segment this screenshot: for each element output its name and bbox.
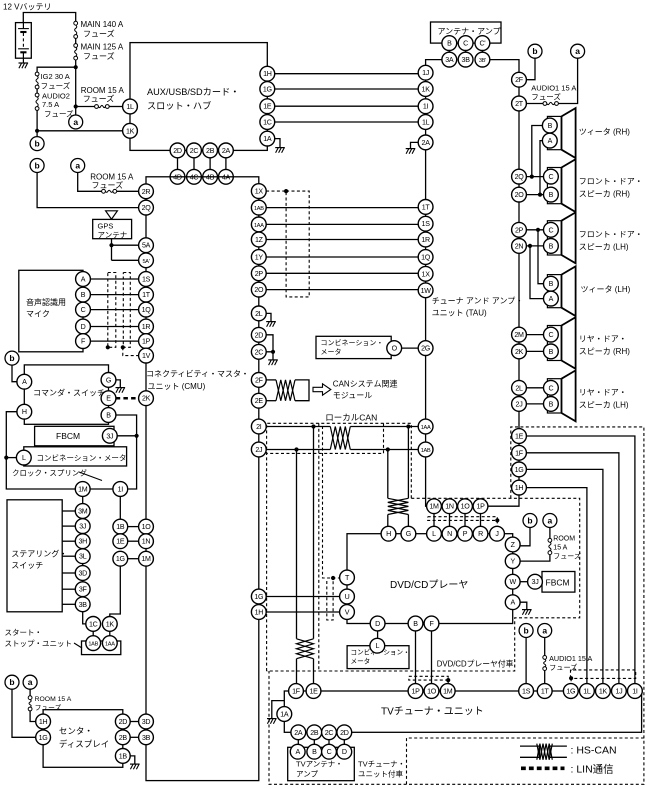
hub pin 2C — [187, 143, 202, 158]
svg-text:2N: 2N — [515, 242, 524, 250]
wire mic C — [90, 309, 139, 311]
svg-text:1AA: 1AA — [105, 642, 115, 648]
wire tv pin down 344.3 — [343, 740, 345, 745]
label clock spring — [12, 468, 87, 478]
CMU pin 1Z right — [251, 232, 266, 247]
wire clockspring chain 589.2 — [82, 595, 84, 598]
svg-text:2R: 2R — [142, 188, 151, 196]
svg-text:: HS-CAN: : HS-CAN — [571, 745, 617, 757]
svg-text:コンビネーション・: コンビネーション・ — [321, 338, 384, 347]
svg-text:3L: 3L — [79, 553, 87, 561]
svg-text:a: a — [575, 46, 580, 56]
wire 2D to 3D — [130, 721, 139, 723]
wire tv pin down 298.3 — [297, 740, 299, 745]
TV pin 1O — [424, 684, 439, 699]
svg-text:b: b — [34, 161, 39, 171]
wire down to TV coil right — [313, 427, 315, 639]
junction dot 2N — [528, 244, 532, 248]
DVD pin G — [401, 526, 416, 541]
svg-text:1B: 1B — [119, 752, 128, 760]
svg-text:1E: 1E — [309, 688, 318, 696]
svg-text:GPS: GPS — [98, 221, 114, 230]
wire AUDIO2 down to b — [36, 110, 38, 136]
front RH pin B — [544, 187, 559, 202]
wire b to 2Q — [37, 173, 139, 208]
wire hub 1E to TAU 1I — [275, 105, 419, 107]
ground CMU 2C — [268, 360, 278, 365]
svg-text:B: B — [106, 412, 111, 420]
svg-text:B: B — [548, 122, 553, 130]
svg-text:ツィータ (LH): ツィータ (LH) — [581, 285, 631, 294]
HS-CAN coil local CAN — [330, 427, 350, 450]
TAU pin 1AB left — [418, 442, 433, 457]
label AUX/USB/SD — [147, 87, 239, 97]
connector 4C — [187, 169, 202, 184]
svg-text:アンテナ: アンテナ — [98, 230, 128, 239]
commander pin A — [17, 374, 32, 389]
CMU pin 1N left — [139, 534, 154, 549]
svg-text:1K: 1K — [126, 127, 135, 135]
junction dot 1AB branch — [386, 447, 390, 451]
svg-text:ローカルCAN: ローカルCAN — [325, 413, 377, 423]
connector a room — [71, 159, 85, 173]
wire CMU 1AB — [266, 207, 418, 209]
label center line2 — [59, 739, 109, 749]
wire room fuse to 1L — [109, 106, 123, 108]
hub pin 2A — [219, 143, 234, 158]
svg-text:B: B — [413, 620, 418, 628]
svg-text:AUX/USB/SDカード・: AUX/USB/SDカード・ — [147, 87, 239, 97]
svg-text:1G: 1G — [566, 688, 575, 696]
antenna amp box — [431, 22, 502, 43]
svg-text:1L: 1L — [422, 119, 430, 127]
connector 4D — [170, 169, 185, 184]
wire hub 1G to TAU 1K — [275, 88, 419, 90]
startstop pin 1AA — [102, 636, 117, 651]
label center line1 — [59, 726, 93, 736]
svg-text:1M: 1M — [429, 503, 439, 511]
steering pin 3H — [75, 534, 90, 549]
wire 2I to coil — [266, 426, 330, 428]
meter pin L dvd — [370, 638, 385, 653]
wire down to a — [75, 107, 77, 115]
wire TAU 1G nest — [526, 469, 603, 684]
wire fuse to 1H disp — [30, 711, 36, 722]
svg-text:3J: 3J — [79, 523, 87, 531]
TAU pin 1G right — [512, 462, 527, 477]
wire W to 3J2 — [520, 581, 528, 583]
wire CMU 2C — [266, 352, 273, 360]
svg-text:1R: 1R — [142, 323, 151, 331]
label AUDIO2 fuse — [44, 109, 74, 119]
dashed shield mic twisted pair box 2 — [123, 273, 130, 348]
connector b audio — [528, 44, 542, 58]
wire clockspring chain 511 — [82, 517, 84, 520]
LIN wire E to 2K — [116, 397, 139, 400]
svg-text:FBCM: FBCM — [56, 431, 80, 441]
TAU pin 2G left — [418, 341, 433, 356]
hub pin 1L — [123, 99, 138, 114]
CMU pin 2P right — [251, 266, 266, 281]
label ROOM fuse disp — [35, 703, 62, 712]
label AUDIO1 tv — [549, 654, 592, 663]
svg-text:D: D — [81, 323, 86, 331]
dashed wire to connector T — [323, 426, 340, 578]
svg-text:スピーカ (LH): スピーカ (LH) — [579, 401, 629, 410]
svg-text:コマンダ・スイッチ: コマンダ・スイッチ — [33, 388, 105, 398]
svg-text:スタート・: スタート・ — [5, 628, 43, 637]
fuse ROOM 15A display — [28, 696, 32, 711]
commander pin E — [101, 391, 116, 406]
label IG2 fuse — [41, 81, 71, 91]
wire to tweeter LH A — [530, 246, 544, 299]
label rear door LH 1 — [579, 388, 627, 397]
wire TAU pin down 480.5 — [480, 513, 482, 526]
steering pin 3L — [75, 549, 90, 564]
wire fuse to a — [558, 58, 577, 103]
dashed enclosure TV tuner outer — [269, 427, 644, 784]
svg-text:1X: 1X — [255, 188, 264, 196]
commander pin H — [17, 404, 32, 419]
TV pin 1G — [563, 684, 578, 699]
svg-text:1O: 1O — [461, 503, 471, 511]
TV ant pin D — [337, 744, 352, 759]
TAU pin 2T right — [512, 96, 527, 111]
svg-text:3J: 3J — [106, 432, 114, 440]
wire antenna pin 449.3 — [448, 50, 450, 52]
dashed shield local CAN bottom — [267, 423, 384, 453]
svg-text:3B': 3B' — [479, 58, 486, 64]
tweeter LH pin B — [544, 276, 559, 291]
connector b switch — [5, 351, 19, 365]
svg-text:2C: 2C — [325, 729, 334, 737]
TAU pin 2J right — [512, 397, 527, 412]
svg-text:音声認識用: 音声認識用 — [26, 297, 66, 307]
TAU pin 2N right — [512, 239, 527, 254]
connector a dvd — [543, 514, 557, 528]
wire 1G down to 1K2 — [110, 566, 121, 617]
label combination meter — [37, 454, 127, 463]
svg-text:1K: 1K — [422, 86, 431, 94]
CMU pin 1AA right — [251, 217, 266, 232]
speaker tweeter RH — [547, 108, 575, 158]
svg-text:フロント・ドア・: フロント・ドア・ — [579, 177, 643, 186]
wire CMU 2O — [266, 289, 418, 291]
wire B to 1P tv — [415, 631, 417, 684]
junction dot 3J — [135, 434, 139, 438]
wire 1K2 to 1AA — [109, 631, 111, 636]
svg-text:2M: 2M — [514, 331, 524, 339]
wire hub pin to connector 3 — [209, 158, 211, 170]
TV antenna amp box — [288, 747, 355, 780]
CMU pin 1X right — [251, 184, 266, 199]
svg-text:5A: 5A — [142, 242, 151, 250]
wire clockspring chain 573 — [82, 580, 84, 582]
TV pin 1J — [612, 684, 627, 699]
svg-text:フロント・ドア・: フロント・ドア・ — [579, 230, 643, 239]
svg-text:D: D — [342, 748, 347, 756]
wire a to 2R fuse — [78, 173, 102, 192]
speaker front door LH — [547, 212, 575, 263]
svg-text:2L: 2L — [515, 384, 523, 392]
tweeter LH pin A — [544, 291, 559, 306]
svg-text:モジュール: モジュール — [333, 391, 372, 400]
svg-text:1T: 1T — [142, 291, 151, 299]
svg-text:a: a — [548, 516, 553, 526]
wire tv pin down 314.3 — [313, 740, 315, 745]
display pin 2B — [115, 730, 130, 745]
wire coil to H — [387, 515, 389, 527]
front LH pin B — [544, 239, 559, 254]
TV pin 1K — [596, 684, 611, 699]
wire CMU 1Y — [266, 256, 418, 258]
hub pin 1C — [260, 115, 275, 130]
wire TAU 1F nest — [526, 453, 619, 684]
wire U to CMU — [266, 596, 340, 598]
wire CMU 1AA — [266, 223, 418, 225]
label rear door RH 1 — [579, 335, 627, 344]
wire mic A — [90, 278, 139, 280]
label ROOM 15 A cmu — [90, 173, 134, 182]
CMU pin 1P left — [139, 334, 154, 349]
wire GPS down — [111, 239, 113, 261]
svg-text:3D: 3D — [142, 718, 151, 726]
wire GPS to 5A2 — [112, 259, 139, 261]
wire H left down to 1M — [6, 412, 75, 489]
hub pin 1G — [260, 82, 275, 97]
svg-text:a: a — [542, 626, 547, 636]
TV pin 1L — [580, 684, 595, 699]
svg-text:1E: 1E — [263, 103, 272, 111]
fuse AUDIO2 7.5 A — [35, 93, 39, 110]
DVD pin H — [381, 526, 396, 541]
svg-text:C: C — [548, 384, 553, 392]
svg-text:1N: 1N — [445, 503, 454, 511]
CMU pin 1T left — [139, 287, 154, 302]
TAU unit outline — [426, 60, 519, 507]
junction dot mic shield 2 — [121, 345, 125, 349]
svg-text:チューナ アンド アンプ・: チューナ アンド アンプ・ — [432, 297, 524, 306]
TAU pin 1F right — [512, 445, 527, 460]
svg-text:P: P — [463, 530, 468, 538]
connector a tv — [538, 624, 552, 638]
svg-text:TVチューナ・ユニット: TVチューナ・ユニット — [381, 706, 484, 718]
svg-text:センタ・: センタ・ — [59, 726, 93, 736]
svg-text:5A': 5A' — [142, 259, 149, 265]
label start line2 — [5, 639, 73, 648]
label GPS — [98, 221, 114, 230]
voice recognition mic box — [19, 270, 83, 352]
commander switch box — [24, 365, 108, 424]
svg-text:C: C — [463, 40, 468, 48]
svg-text:1C: 1C — [263, 119, 272, 127]
svg-text:15 A: 15 A — [553, 545, 567, 552]
TV pin 1S — [519, 684, 534, 699]
svg-text:2F: 2F — [515, 76, 524, 84]
GPS antenna box — [93, 219, 132, 238]
svg-text:1F: 1F — [292, 688, 301, 696]
wire steering stub 511 — [62, 510, 75, 512]
wire D to L2 — [377, 631, 379, 639]
svg-text:3M: 3M — [78, 508, 88, 516]
svg-text:1G: 1G — [515, 466, 524, 474]
label MAIN 125 A fuse — [83, 51, 115, 61]
pointer start stop — [74, 643, 82, 648]
wire to tweeter LH B — [538, 230, 544, 284]
svg-text:C': C' — [479, 40, 485, 48]
label TV ant 1 — [296, 760, 343, 769]
TV pin 1E — [306, 684, 321, 699]
svg-text:b: b — [527, 516, 532, 526]
label ROOM fuse — [83, 94, 115, 104]
label front door LH 2 — [579, 243, 629, 252]
svg-text:2J: 2J — [516, 400, 524, 408]
svg-text:MAIN 125 A: MAIN 125 A — [81, 43, 124, 52]
junction dot LIN T — [331, 576, 335, 580]
speaker rear door RH — [547, 317, 575, 369]
DVD pin P — [458, 526, 473, 541]
junction dot LIN 1M — [446, 678, 450, 682]
wire TAU 1E nest — [526, 436, 635, 684]
wire 1B ground — [130, 756, 135, 764]
svg-text:1I: 1I — [632, 688, 638, 696]
label start line1 — [5, 628, 43, 637]
mic pin F — [76, 334, 91, 349]
wire 2K to B — [526, 350, 543, 352]
svg-text:1P: 1P — [142, 338, 151, 346]
svg-text:2E: 2E — [255, 397, 264, 405]
label FBCM — [56, 431, 80, 441]
label CMU line2 — [148, 382, 206, 391]
label meter dvd 1 — [351, 648, 410, 657]
svg-text:1M: 1M — [78, 486, 88, 494]
GPS antenna symbol — [106, 211, 118, 219]
svg-text:2Q: 2Q — [142, 204, 152, 212]
wire 2O to B — [526, 194, 543, 196]
svg-text:1E: 1E — [515, 433, 524, 441]
svg-text:O: O — [392, 345, 398, 353]
FBCM box — [35, 426, 114, 446]
wire TAU pin down 449.5 — [449, 513, 451, 526]
CMU pin 1Q left — [139, 302, 154, 317]
wire 1G to 1M2 — [128, 558, 139, 560]
svg-text:1G: 1G — [254, 593, 263, 601]
wire CMU 2P — [266, 272, 418, 274]
label tweeter LH — [581, 285, 631, 294]
wire TAU 2A ground — [411, 142, 419, 148]
rear LH pin C — [544, 380, 559, 395]
CMU pin 2O right — [251, 282, 266, 297]
svg-text:2B: 2B — [310, 729, 319, 737]
CMU pin 5A left — [139, 238, 154, 253]
label meter dvd 2 — [351, 657, 371, 666]
battery B+ — [16, 23, 32, 63]
svg-text:C: C — [81, 306, 86, 314]
wire G ground — [116, 380, 121, 388]
label legend LIN — [571, 764, 614, 776]
svg-text:ROOM 15 A: ROOM 15 A — [35, 696, 72, 703]
wire fuse to Y — [520, 555, 550, 562]
svg-text:C: C — [548, 331, 553, 339]
wire 1C to 1AB — [92, 631, 94, 636]
DVD pin Y — [505, 554, 520, 569]
CMU pin 1AB right — [251, 200, 266, 215]
rear RH pin B — [544, 344, 559, 359]
clockspring pin 1G — [113, 551, 128, 566]
svg-text:3D: 3D — [78, 570, 87, 578]
svg-text:2B: 2B — [206, 147, 215, 155]
svg-text:1AB: 1AB — [88, 642, 98, 648]
wire hub 1A to ground — [275, 139, 281, 148]
label front door LH 1 — [579, 230, 643, 239]
rear RH pin C — [544, 327, 559, 342]
CMU pin 2Q left — [139, 200, 154, 215]
CMU pin 2R left — [139, 184, 154, 199]
wire 2N to B — [526, 245, 543, 247]
svg-text:A: A — [295, 748, 300, 756]
label AUDIO1 fuse tv — [549, 663, 577, 672]
ground CMU 2L — [266, 322, 276, 327]
clockspring pin 1M — [75, 482, 90, 497]
label AUDIO1 fuse — [531, 92, 561, 102]
connector 3B — [458, 52, 473, 67]
svg-text:1O: 1O — [142, 523, 152, 531]
CMU pin 2L right — [251, 306, 266, 321]
hub pin 2B — [203, 143, 218, 158]
label TV car 2 — [358, 769, 403, 779]
ground TAU 2A — [406, 149, 416, 154]
TAU pin 1L left — [418, 115, 433, 130]
svg-text:1M: 1M — [141, 555, 151, 563]
label CAN system 1 — [333, 379, 398, 389]
svg-text:FBCM: FBCM — [546, 578, 570, 588]
svg-text:C: C — [327, 748, 332, 756]
svg-text:ディスプレイ: ディスプレイ — [59, 739, 109, 749]
wire tweeter RH A — [540, 141, 543, 195]
label local CAN — [325, 413, 377, 423]
svg-text:2D: 2D — [255, 331, 264, 339]
fuse AUDIO1 15 A — [543, 102, 558, 106]
CMU pin 1V left — [139, 348, 154, 363]
meter pin O — [387, 341, 402, 356]
fuse IG2 30 A — [35, 72, 39, 89]
svg-text:1G: 1G — [116, 555, 125, 563]
wire CMU 2L ground — [266, 313, 271, 321]
wire steering stub 526.1 — [62, 525, 75, 527]
svg-text:3B: 3B — [462, 56, 471, 64]
coil bracket — [295, 380, 309, 401]
wire B right down — [116, 415, 137, 489]
wire 2T fuse start — [526, 103, 543, 105]
fuse AUDIO1 15A tv — [543, 656, 547, 671]
svg-text:リヤ・ドア・: リヤ・ドア・ — [579, 335, 627, 344]
commander pin G — [101, 373, 116, 388]
connector 1K ss — [102, 617, 117, 632]
svg-text:2F: 2F — [255, 376, 264, 384]
svg-text:1V: 1V — [142, 352, 151, 360]
TV ant pin A — [290, 744, 305, 759]
label MAIN 125 A — [81, 43, 124, 52]
wire 1I down to 1B — [119, 496, 121, 519]
clockspring pin 1B — [113, 519, 128, 534]
TAU pin 1W left — [418, 283, 433, 298]
svg-text:b: b — [532, 46, 537, 56]
svg-text:コネクティビティ・マスタ・: コネクティビティ・マスタ・ — [146, 370, 249, 379]
svg-text:DVD/CDプレーヤ: DVD/CDプレーヤ — [390, 579, 468, 591]
svg-text:1S: 1S — [522, 688, 531, 696]
svg-text:1G: 1G — [263, 86, 272, 94]
svg-text:TVアンテナ・: TVアンテナ・ — [296, 760, 343, 769]
